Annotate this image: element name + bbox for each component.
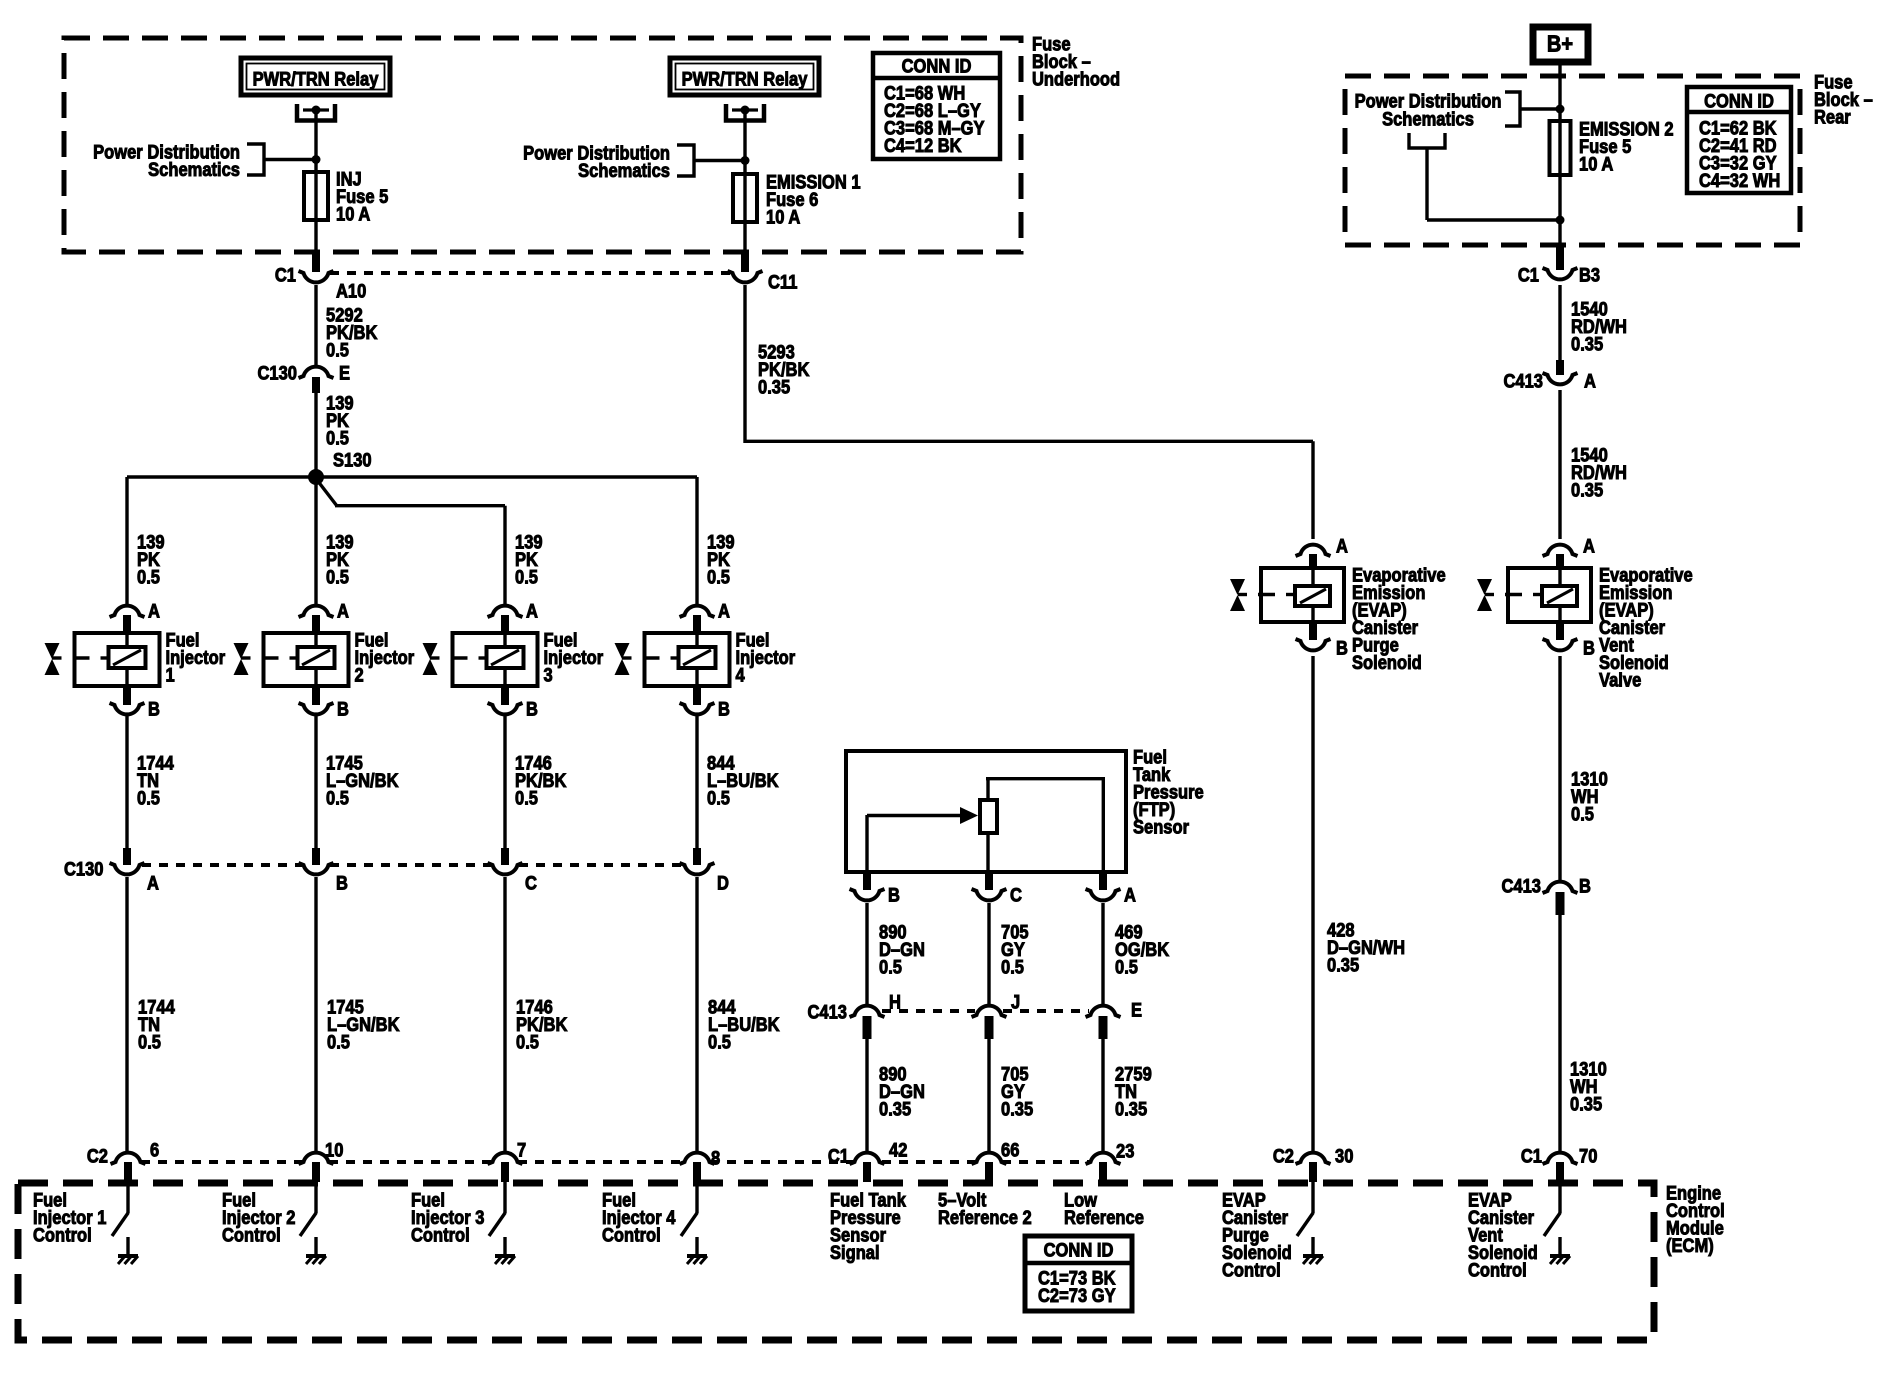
valve link dashes (injector 1) [52, 656, 62, 659]
EVAP purge solenoid box [1261, 568, 1344, 622]
bracket to power distribution (middle) [677, 145, 694, 176]
EVAP purge internal wire [1311, 568, 1314, 588]
ground (injector 4) [687, 1254, 707, 1258]
svg-text:0.5: 0.5 [326, 788, 349, 809]
svg-text:0.5: 0.5 [707, 567, 730, 588]
bottom connector arc pin 70 [1543, 1153, 1578, 1164]
valve symbol (injector 2) [234, 643, 249, 659]
svg-text:Control: Control [1468, 1260, 1527, 1281]
fuse EMISSION 2 Fuse 5 10A [1550, 121, 1571, 175]
svg-text:Solenoid: Solenoid [1352, 652, 1422, 673]
valve symbol (injector 3) [423, 643, 438, 659]
svg-text:E: E [339, 363, 350, 384]
bottom connector arc pin 30 [1296, 1153, 1331, 1164]
bottom connector pin 42 [863, 1162, 871, 1182]
svg-text:2: 2 [355, 665, 364, 686]
svg-text:S130: S130 [333, 450, 372, 471]
connector C130 pin A [123, 848, 131, 865]
svg-text:0.5: 0.5 [708, 1032, 731, 1053]
svg-text:Schematics: Schematics [578, 160, 670, 181]
pin A (injector 3) [501, 615, 509, 634]
connector C413 arc H [850, 1006, 885, 1017]
connector arc A (EVAP purge) [1296, 545, 1331, 556]
svg-text:10: 10 [325, 1140, 343, 1161]
svg-text:0.5: 0.5 [137, 788, 160, 809]
fuse block underhood dashed box [64, 38, 1021, 252]
wire S130 branch to injector 3 [335, 504, 505, 507]
FTP connector arc B [850, 889, 885, 900]
valve link dashes (EVAP vent) [1485, 593, 1494, 596]
svg-text:8: 8 [711, 1148, 720, 1169]
fuel injector 4 coil [679, 647, 716, 668]
svg-text:A: A [1583, 536, 1595, 557]
FTP pin C [985, 872, 993, 890]
fuse INJ Fuse 5 10A [304, 172, 328, 220]
svg-text:0.5: 0.5 [137, 567, 160, 588]
connector arc B (injector 1) [110, 703, 145, 714]
pin B (injector 3) [501, 686, 509, 705]
connector C1 B3 pin [1556, 247, 1564, 270]
connector C413 B pin [1556, 892, 1565, 915]
fuel injector 2 coil [298, 647, 335, 668]
svg-text:0.35: 0.35 [879, 1099, 911, 1120]
bottom connector arc pin 8 [680, 1153, 715, 1164]
svg-text:0.35: 0.35 [1571, 334, 1603, 355]
svg-text:C1: C1 [275, 265, 296, 286]
svg-text:0.35: 0.35 [1327, 955, 1359, 976]
relay box PWR/TRN Relay (middle) [670, 58, 819, 95]
svg-text:Sensor: Sensor [1133, 817, 1189, 838]
connector arc A (injector 2) [299, 606, 334, 617]
svg-text:A: A [337, 601, 349, 622]
wire injector 3 C130 to ECM [503, 877, 506, 1151]
valve symbol (injector 1) [45, 643, 60, 659]
connector C1 pin A10 [312, 254, 320, 272]
fuel injector 1 coil [109, 647, 146, 668]
wire relay to fuse INJ [314, 110, 317, 254]
relay box PWR/TRN Relay (left) [241, 58, 390, 95]
svg-text:A: A [148, 601, 160, 622]
svg-text:10 A: 10 A [336, 204, 370, 225]
svg-text:B3: B3 [1579, 265, 1600, 286]
svg-text:C2: C2 [1273, 1146, 1294, 1167]
svg-text:0.5: 0.5 [707, 788, 730, 809]
FTP potentiometer [980, 800, 997, 833]
svg-text:B: B [1336, 638, 1348, 659]
FTP left leg [865, 815, 868, 872]
svg-text:Reference: Reference [1064, 1207, 1144, 1228]
svg-text:B: B [148, 699, 160, 720]
svg-text:0.5: 0.5 [1571, 804, 1594, 825]
wire S130 bus [127, 475, 697, 478]
svg-text:42: 42 [889, 1140, 907, 1161]
svg-text:A: A [1584, 371, 1596, 392]
pin B (injector 4) [693, 686, 701, 705]
bottom connector pin 7 [501, 1162, 509, 1182]
fuel injector 1 box [75, 633, 160, 686]
svg-text:B: B [336, 873, 348, 894]
pin B (injector 1) [123, 686, 131, 705]
svg-text:0.35: 0.35 [758, 377, 790, 398]
wire injector 2 B to C130 [314, 716, 317, 849]
wire C11 down and right to EVAP purge [743, 285, 746, 443]
svg-text:Control: Control [33, 1225, 92, 1246]
valve link dashes (EVAP purge) [1238, 593, 1247, 596]
svg-text:E: E [1131, 1000, 1142, 1021]
svg-text:C4=12 BK: C4=12 BK [884, 135, 962, 156]
EVAP vent solenoid box [1508, 568, 1591, 622]
svg-text:C413: C413 [1504, 371, 1544, 392]
ECM driver switch (injector 1) [126, 1182, 129, 1214]
EVAP purge coil [1295, 586, 1330, 606]
svg-text:J: J [1011, 992, 1020, 1013]
bottom connector arc pin 23 [1086, 1153, 1121, 1164]
svg-text:10 A: 10 A [766, 207, 800, 228]
svg-text:0.5: 0.5 [515, 567, 538, 588]
svg-text:66: 66 [1001, 1140, 1019, 1161]
bottom connector arc pin 7 [488, 1153, 523, 1164]
wire EVAP vent B to C413 B [1558, 656, 1561, 880]
svg-text:0.5: 0.5 [1115, 957, 1138, 978]
FTP connector arc A [1086, 889, 1121, 900]
connector arc B (injector 4) [680, 703, 715, 714]
ground (EVAP purge) [1303, 1254, 1323, 1258]
fuse block rear dashed box [1345, 76, 1800, 245]
connector arc B (injector 2) [299, 703, 334, 714]
connector C413 arc J [972, 1006, 1007, 1017]
svg-text:PWR/TRN Relay: PWR/TRN Relay [682, 69, 808, 90]
svg-text:0.5: 0.5 [327, 1032, 350, 1053]
connector C1 B3 arc [1543, 268, 1578, 279]
ground (injector 1) [118, 1254, 138, 1258]
connector arc B (EVAP purge) [1296, 639, 1331, 650]
EVAP vent internal wire [1558, 568, 1561, 588]
svg-text:Control: Control [602, 1225, 661, 1246]
fuel injector 2 box [264, 633, 349, 686]
connector C413 pin J [985, 1016, 994, 1039]
ground (injector 2) [306, 1254, 326, 1258]
svg-text:PWR/TRN Relay: PWR/TRN Relay [253, 69, 379, 90]
bottom connector pin 70 [1556, 1162, 1564, 1182]
wire relay to fuse EMISSION 1 [743, 110, 746, 254]
svg-text:3: 3 [544, 665, 553, 686]
svg-text:10 A: 10 A [1579, 154, 1613, 175]
wire S130 to injector 4 [695, 477, 698, 604]
relay contact symbol (left) [297, 104, 335, 121]
wire C1 to C130 [314, 285, 317, 365]
svg-text:A: A [1336, 536, 1348, 557]
svg-text:0.35: 0.35 [1115, 1099, 1147, 1120]
connector arc B (EVAP vent) [1543, 639, 1578, 650]
bottom connector arc pin 42 [850, 1153, 885, 1164]
svg-text:B: B [718, 699, 730, 720]
pin A (injector 1) [123, 615, 131, 634]
conn id table rear [1687, 87, 1791, 193]
engine control module dashed box [18, 1183, 1654, 1340]
svg-text:B: B [1579, 876, 1591, 897]
svg-text:Schematics: Schematics [1382, 109, 1474, 130]
dotted line C1-C11 boundary [330, 271, 732, 275]
FTP pin B [863, 872, 871, 890]
svg-text:0.5: 0.5 [515, 788, 538, 809]
connector C130 arc C [488, 863, 523, 874]
connector arc B (injector 3) [488, 703, 523, 714]
pin A (EVAP vent) [1556, 554, 1564, 569]
svg-text:0.35: 0.35 [1001, 1099, 1033, 1120]
svg-text:6: 6 [150, 1140, 159, 1161]
bottom connector arc pin 10 [299, 1153, 334, 1164]
svg-text:Reference 2: Reference 2 [938, 1207, 1032, 1228]
connector C413 pin E [1099, 1016, 1108, 1039]
svg-text:C2: C2 [87, 1146, 108, 1167]
svg-text:B: B [526, 699, 538, 720]
svg-text:C130: C130 [258, 363, 298, 384]
svg-text:C: C [1010, 885, 1022, 906]
svg-text:Schematics: Schematics [148, 159, 240, 180]
svg-text:A: A [526, 601, 538, 622]
connector C413 A arc [1543, 373, 1578, 384]
connector C130 arc D [680, 863, 715, 874]
wire C413 B to ECM [1558, 915, 1561, 1151]
fuel injector 4 internal wire [695, 633, 698, 650]
svg-text:Control: Control [1222, 1260, 1281, 1281]
connector C413 A pin [1556, 360, 1564, 375]
connector arc A (injector 4) [680, 606, 715, 617]
svg-text:0.35: 0.35 [1570, 1094, 1602, 1115]
wire S130 branch diagonal [317, 480, 337, 506]
connector C130 pin B [312, 848, 320, 865]
svg-text:A10: A10 [336, 281, 366, 302]
connector arc A (injector 3) [488, 606, 523, 617]
svg-text:A: A [1124, 885, 1136, 906]
fuel tank pressure sensor box [846, 751, 1126, 872]
svg-text:70: 70 [1579, 1146, 1597, 1167]
wire injector 3 B to C130 [503, 716, 506, 849]
EVAP vent coil [1542, 586, 1577, 606]
wire injector 2 C130 to ECM [314, 877, 317, 1151]
bracket to power distribution (left) [247, 144, 264, 175]
svg-text:Valve: Valve [1599, 670, 1641, 691]
bottom connector pin 23 [1099, 1162, 1107, 1182]
pin A (injector 2) [312, 615, 320, 634]
wire C413 E to ECM [1101, 1039, 1104, 1151]
fuel injector 1 internal wire [125, 633, 128, 650]
connector C130 E pin [312, 377, 320, 393]
svg-text:Control: Control [411, 1225, 470, 1246]
svg-text:(ECM): (ECM) [1666, 1235, 1714, 1256]
connector C130 pin D [693, 848, 701, 865]
conn id table bottom [1025, 1236, 1132, 1311]
wire S130 to injector 2 [314, 477, 317, 604]
splice S130 junction dot [308, 469, 324, 485]
svg-text:Rear: Rear [1814, 107, 1851, 128]
ECM driver switch (injector 3) [503, 1182, 506, 1214]
svg-text:0.5: 0.5 [1001, 957, 1024, 978]
FTP wiper arrow [867, 814, 962, 817]
bottom connector pin 10 [312, 1162, 320, 1182]
FTP connector arc C [972, 889, 1007, 900]
FTP inner loop [986, 777, 989, 800]
valve symbol (injector 4) [615, 643, 630, 659]
ground (EVAP vent) [1550, 1254, 1570, 1258]
wire C413 A to EVAP vent [1558, 390, 1561, 539]
svg-text:B+: B+ [1547, 30, 1573, 57]
battery terminal B+ [1533, 27, 1588, 62]
wire FTP C to C413 [987, 903, 990, 1004]
bottom connector pin 30 [1309, 1162, 1317, 1182]
dotted line C130 row [142, 863, 302, 867]
svg-text:0.5: 0.5 [516, 1032, 539, 1053]
connector C1 arc [299, 271, 334, 282]
wire injector 1 C130 to ECM [125, 877, 128, 1151]
connector C130 E arc [299, 367, 334, 378]
connector C11 arc [728, 271, 763, 282]
svg-text:0.5: 0.5 [326, 428, 349, 449]
valve link dashes (injector 4) [622, 656, 632, 659]
wire injector 4 C130 to ECM [695, 877, 698, 1151]
svg-text:A: A [718, 601, 730, 622]
svg-text:D: D [717, 873, 729, 894]
wire C413 H to ECM [865, 1039, 868, 1151]
FTP pin A [1099, 872, 1107, 890]
fuel injector 4 box [645, 633, 730, 686]
wire C1 B3 to C413 A [1558, 285, 1561, 361]
svg-text:C: C [525, 873, 537, 894]
pin A (injector 4) [693, 615, 701, 634]
bottom connector pin 66 [985, 1162, 993, 1182]
svg-text:23: 23 [1116, 1141, 1134, 1162]
svg-text:B: B [337, 699, 349, 720]
wire B+ to fuse EMISSION 2 [1558, 62, 1561, 247]
svg-text:0.5: 0.5 [326, 567, 349, 588]
svg-text:0.5: 0.5 [326, 340, 349, 361]
ECM driver switch (EVAP purge) [1311, 1182, 1314, 1214]
wire injector 4 B to C130 [695, 716, 698, 849]
svg-text:Underhood: Underhood [1032, 69, 1120, 90]
connector C413 pin H [863, 1016, 872, 1039]
svg-text:C413: C413 [1502, 876, 1542, 897]
svg-text:CONN ID: CONN ID [902, 56, 972, 77]
svg-text:B: B [1583, 638, 1595, 659]
svg-text:B: B [888, 885, 900, 906]
FTP pot to box bottom [986, 833, 989, 872]
wire S130 to injector 1 [125, 477, 128, 604]
fuse EMISSION 1 Fuse 6 10A [733, 174, 757, 222]
fuel injector 3 box [453, 633, 538, 686]
ground (injector 3) [495, 1254, 515, 1258]
svg-text:Signal: Signal [830, 1242, 880, 1263]
wire FTP A to C413 [1101, 903, 1104, 1004]
svg-text:1: 1 [166, 665, 175, 686]
fuel injector 2 internal wire [314, 633, 317, 650]
bottom connector arc pin 6 [111, 1153, 146, 1164]
bottom connector pin 6 [124, 1162, 132, 1182]
svg-text:7: 7 [517, 1140, 526, 1161]
svg-text:C4=32 WH: C4=32 WH [1699, 170, 1780, 191]
wire C130 to S130 [314, 393, 317, 477]
svg-text:C2=73 GY: C2=73 GY [1038, 1285, 1116, 1306]
valve link dashes (injector 2) [241, 656, 251, 659]
svg-text:30: 30 [1335, 1146, 1353, 1167]
valve symbol (EVAP vent) [1477, 579, 1492, 595]
wire EVAP purge B to ECM [1311, 656, 1314, 1151]
svg-text:A: A [147, 873, 159, 894]
ECM driver switch (EVAP vent) [1558, 1182, 1561, 1214]
connector C413 arc E [1086, 1006, 1121, 1017]
pin B (EVAP vent) [1556, 622, 1564, 640]
connector C130 arc A [110, 863, 145, 874]
dotted line bottom connector row [141, 1160, 303, 1164]
ECM driver switch (injector 2) [314, 1182, 317, 1214]
svg-text:C130: C130 [64, 859, 104, 880]
connector arc A (injector 1) [110, 606, 145, 617]
connector C11 pin [741, 254, 749, 272]
bracket to power distribution (rear bottom) [1409, 133, 1445, 148]
valve symbol (EVAP purge) [1230, 579, 1245, 595]
pin B (injector 2) [312, 686, 320, 705]
connector arc A (EVAP vent) [1543, 545, 1578, 556]
fuel injector 3 coil [487, 647, 524, 668]
connector C130 pin C [501, 848, 509, 865]
connector C130 arc B [299, 863, 334, 874]
svg-text:CONN ID: CONN ID [1044, 1240, 1114, 1261]
fuel injector 3 internal wire [503, 633, 506, 650]
bracket to power distribution (rear top) [1505, 92, 1520, 126]
connector C413 B arc [1543, 882, 1578, 893]
relay contact symbol (middle) [726, 104, 764, 121]
valve link dashes (injector 3) [430, 656, 440, 659]
bottom connector arc pin 66 [972, 1153, 1007, 1164]
svg-text:4: 4 [736, 665, 745, 686]
dotted line C413 row [882, 1009, 975, 1013]
svg-text:0.35: 0.35 [1571, 480, 1603, 501]
pin A (EVAP purge) [1309, 554, 1317, 569]
wire injector 1 B to C130 [125, 716, 128, 849]
wire C413 J to ECM [987, 1039, 990, 1151]
svg-text:C413: C413 [808, 1002, 848, 1023]
bottom connector pin 8 [693, 1162, 701, 1182]
conn id table underhood [873, 53, 1000, 159]
wire FTP B to C413 [865, 903, 868, 1004]
pin B (EVAP purge) [1309, 622, 1317, 640]
ECM driver switch (injector 4) [695, 1182, 698, 1214]
svg-text:CONN ID: CONN ID [1704, 91, 1774, 112]
svg-text:C11: C11 [768, 272, 797, 293]
svg-text:Control: Control [222, 1225, 281, 1246]
svg-text:C1: C1 [1518, 265, 1539, 286]
svg-text:0.5: 0.5 [879, 957, 902, 978]
svg-text:0.5: 0.5 [138, 1032, 161, 1053]
svg-text:C1: C1 [1521, 1146, 1542, 1167]
